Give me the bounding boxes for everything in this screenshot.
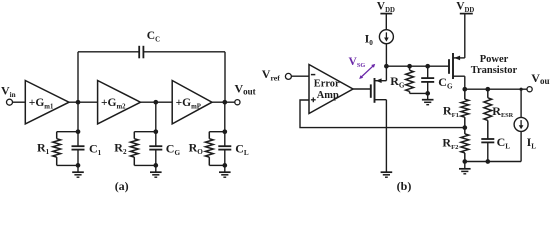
wire gate rail <box>386 65 449 67</box>
capacitor CG a <box>149 142 180 166</box>
transistor MP power PMOS <box>449 53 465 79</box>
svg-text:Vin: Vin <box>1 83 16 98</box>
wire branch1 top <box>57 131 78 133</box>
ground M1 drain <box>381 172 393 177</box>
junction branch2 top <box>153 129 158 134</box>
svg-text:RG: RG <box>390 74 405 89</box>
amplifier stage Gm2 <box>98 81 141 124</box>
svg-text:CG: CG <box>438 75 453 90</box>
wire error amp output to M1 gate <box>353 88 371 90</box>
svg-text:R2: R2 <box>114 141 127 156</box>
resistor RESR <box>484 89 514 139</box>
wire M1 drain down <box>385 100 387 173</box>
svg-text:Vout: Vout <box>531 71 550 86</box>
svg-text:CC: CC <box>147 30 160 43</box>
svg-text:Vref: Vref <box>262 67 280 82</box>
svg-text:IL: IL <box>527 135 537 150</box>
current source IL <box>514 89 536 161</box>
svg-text:RO: RO <box>189 141 204 156</box>
junction CG bottom <box>425 91 430 96</box>
input terminal Vref <box>262 67 292 82</box>
junction output ESR <box>485 87 490 92</box>
wire feedback top left <box>78 51 139 53</box>
svg-text:VDD: VDD <box>377 1 395 14</box>
transistor M1 buffer PMOS <box>371 78 387 103</box>
caption (b) <box>397 179 412 193</box>
wire branch3 bottom <box>209 164 225 166</box>
svg-text:(b): (b) <box>397 179 412 193</box>
wire branch2 top <box>134 131 156 133</box>
junction output IL <box>520 88 523 91</box>
node 1 <box>76 100 81 105</box>
junction branch3 bottom <box>222 163 227 168</box>
amplifier stage Gm1 <box>25 81 69 124</box>
junction bottom CL <box>485 159 490 164</box>
ground branch3 <box>219 165 231 177</box>
junction RG top <box>407 64 412 69</box>
wire RG bottom to CG bottom <box>410 92 428 94</box>
ground branch1 <box>72 165 84 177</box>
power rail VDD 2 <box>456 1 474 58</box>
capacitor CC <box>139 30 160 58</box>
wire Vin to Gm1 <box>12 101 25 103</box>
wire node1 down to C1 <box>77 102 79 146</box>
svg-text:(a): (a) <box>115 179 129 193</box>
op-amp error amplifier U1 <box>309 65 353 114</box>
output node a <box>222 100 227 105</box>
power rail VDD 1 <box>377 1 395 30</box>
svg-text:I0: I0 <box>365 31 374 46</box>
node feedback divider <box>462 125 467 130</box>
wire branch1 bottom <box>57 164 78 166</box>
wire Gm2 output to GmP input <box>141 101 173 103</box>
ground output <box>459 162 471 174</box>
junction output left <box>462 87 467 92</box>
junction branch1 bottom <box>76 163 81 168</box>
wire branch3 top <box>209 131 225 133</box>
wire feedback top right <box>143 51 225 53</box>
junction branch3 top <box>222 129 227 134</box>
junction rail left <box>384 64 389 69</box>
resistor RF2 <box>442 128 468 162</box>
ground RG CG <box>422 93 434 104</box>
svg-text:VDD: VDD <box>456 1 474 14</box>
svg-text:RESR: RESR <box>492 104 513 119</box>
output terminal Vout b <box>527 71 550 92</box>
capacitor CL a <box>218 142 249 166</box>
svg-text:CG: CG <box>166 142 181 157</box>
capacitor CL b <box>481 135 510 161</box>
wire node1 feedback riser <box>77 52 79 102</box>
svg-text:R1: R1 <box>37 141 50 156</box>
wire bottom rail <box>465 161 521 163</box>
resistor RG <box>390 66 413 93</box>
svg-text:CL: CL <box>235 142 249 157</box>
arrow VSG <box>359 64 375 79</box>
svg-text:Error: Error <box>314 79 340 90</box>
wire Vref to error amp <box>291 75 309 77</box>
wire output node down to CL <box>224 102 226 146</box>
ground branch2 <box>150 165 162 177</box>
svg-text:Vout: Vout <box>235 82 256 97</box>
resistor R2 <box>114 132 138 166</box>
resistor RF1 <box>443 89 469 127</box>
wire I0 to gate rail <box>385 44 387 66</box>
capacitor C1 <box>72 142 102 166</box>
wire feedback to plus input <box>300 100 465 128</box>
wire feedback right riser <box>224 52 226 102</box>
amplifier stage GmP <box>172 81 212 124</box>
svg-text:RF2: RF2 <box>442 136 459 151</box>
caption (a) <box>115 179 129 193</box>
wire M1 source up to rail <box>385 66 387 81</box>
svg-text:Transistor: Transistor <box>471 65 518 76</box>
svg-text:C1: C1 <box>89 142 102 157</box>
label VSG <box>349 56 366 69</box>
junction bottom left <box>462 159 467 164</box>
svg-text:Power: Power <box>480 54 509 65</box>
wire Gm1 output to Gm2 input <box>69 101 98 103</box>
node 2 <box>153 100 158 105</box>
svg-text:VSG: VSG <box>349 56 366 69</box>
junction branch1 top <box>76 129 81 134</box>
wire output rail <box>465 88 527 90</box>
current source I0 <box>365 30 394 47</box>
input terminal Vin <box>1 83 16 105</box>
label power transistor <box>471 54 518 76</box>
wire GmP output to Vout <box>212 101 235 103</box>
svg-text:Amp: Amp <box>317 90 339 101</box>
resistor RO <box>189 132 214 166</box>
resistor R1 <box>37 132 61 166</box>
wire MP drain down <box>464 76 466 89</box>
svg-text:CL: CL <box>497 135 511 150</box>
wire branch2 bottom <box>134 164 156 166</box>
output terminal Vout a <box>235 82 256 105</box>
junction branch2 bottom <box>153 163 158 168</box>
capacitor CG b <box>421 66 453 93</box>
junction CG top <box>425 64 430 69</box>
wire node2 down to CG <box>155 102 157 146</box>
svg-text:RF1: RF1 <box>443 103 459 118</box>
